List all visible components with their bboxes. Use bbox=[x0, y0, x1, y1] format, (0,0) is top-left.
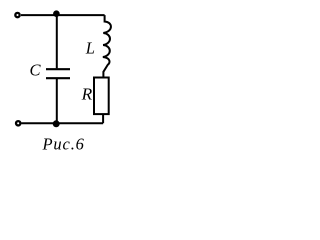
resistor R body bbox=[94, 78, 109, 115]
node bottom junction bbox=[53, 120, 60, 127]
svg-text:L: L bbox=[85, 39, 95, 58]
inductor L bbox=[103, 15, 111, 77]
node top junction bbox=[53, 10, 60, 17]
capacitor C plates bbox=[46, 69, 70, 78]
wire capacitor branch lower bbox=[56, 79, 58, 123]
wire bottom horizontal bbox=[22, 122, 104, 124]
svg-text:C: C bbox=[30, 61, 42, 80]
terminal (bottom-left input) bbox=[16, 121, 20, 125]
wire resistor to bottom bbox=[102, 114, 104, 123]
wire top horizontal bbox=[21, 14, 105, 16]
svg-text:Рис.6: Рис.6 bbox=[42, 134, 85, 153]
svg-text:R: R bbox=[81, 85, 93, 104]
wire capacitor branch upper bbox=[56, 15, 58, 68]
terminal (top-left input) bbox=[15, 13, 19, 17]
